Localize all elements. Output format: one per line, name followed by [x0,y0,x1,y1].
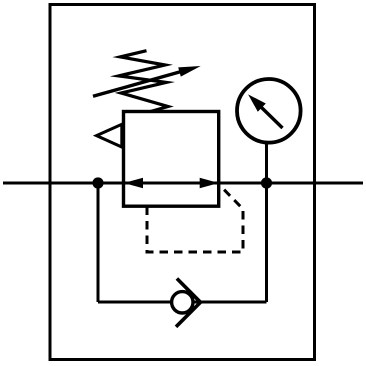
adjustment arrow [93,71,183,96]
adjustment spring [119,51,168,112]
relief vent triangle [97,124,122,147]
node left junction [92,177,103,188]
flow arrow left [124,178,143,188]
enclosure border [50,5,315,360]
wire: right branch down [265,183,268,302]
pressure gauge stem wire [265,144,268,183]
check valve V1 seat [176,279,201,327]
pressure gauge G [237,79,301,143]
wire: bottom bypass [98,301,267,304]
wire: left branch down [97,183,100,302]
pilot line (dashed) [147,186,243,252]
check valve V1 ball [172,292,193,313]
wire: main flow line [3,182,363,185]
gauge needle [261,107,283,128]
regulator body U1 [124,112,219,207]
flow arrow right [200,178,219,188]
node right junction [261,177,272,188]
